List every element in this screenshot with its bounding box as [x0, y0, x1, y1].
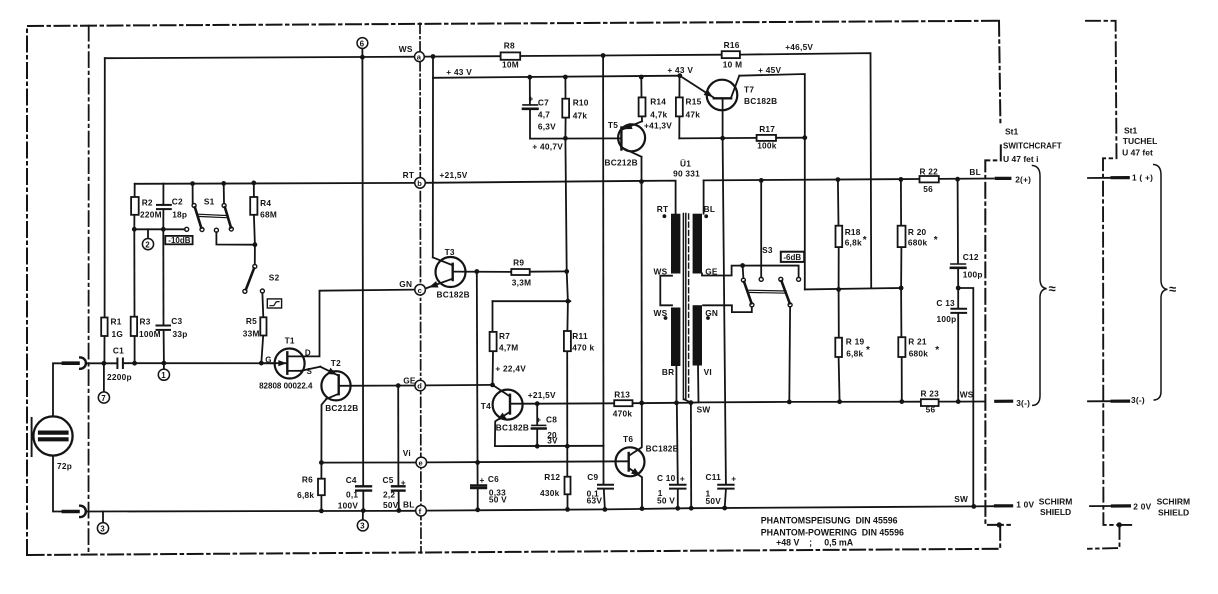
svg-text:*: * — [863, 235, 867, 246]
node 7 tick — [103, 366, 105, 392]
svg-text:R14: R14 — [650, 97, 666, 107]
capsule circle — [33, 416, 72, 455]
node (3) circle center — [357, 520, 368, 531]
resistor R1 — [101, 318, 107, 337]
svg-text:3(-): 3(-) — [1016, 398, 1030, 408]
svg-text:SCHIRM: SCHIRM — [1039, 497, 1073, 507]
svg-text:WS: WS — [960, 390, 974, 400]
svg-text:RT: RT — [657, 204, 669, 214]
wire R1 vertical from WS line corner — [104, 58, 106, 317]
node f circle (BL) — [416, 505, 427, 516]
transformer BL polarity dot — [704, 214, 708, 218]
wire R4 leads + S1 pole link down to S2 — [253, 183, 255, 197]
svg-text:R15: R15 — [686, 97, 702, 107]
resistor R8 — [501, 52, 521, 59]
Tuchel pin 3(-) stub — [1088, 400, 1112, 402]
wire C12/C13 junction to shield — [958, 288, 973, 505]
wire C8 vertical — [536, 404, 538, 425]
svg-text:C7: C7 — [538, 97, 549, 107]
svg-text:1: 1 — [161, 371, 166, 380]
resistor R2 — [131, 197, 139, 215]
wire T6 emitter — [629, 468, 642, 508]
T7 base lead down — [722, 98, 724, 138]
svg-text:SHIELD: SHIELD — [1158, 508, 1189, 518]
node a circle (WS) — [415, 52, 425, 62]
svg-text:+: + — [731, 474, 736, 484]
wire R15 leads — [678, 76, 680, 98]
wire R20/R21 column — [900, 179, 902, 225]
svg-text:e: e — [419, 459, 423, 468]
wire R3 bottom lead — [134, 336, 136, 363]
pin 2(+) bar — [996, 177, 1010, 180]
svg-text:R16: R16 — [724, 40, 740, 50]
svg-text:+48 V ; 0,5 mA: +48 V ; 0,5 mA — [776, 537, 854, 547]
svg-text:R13: R13 — [614, 389, 630, 399]
svg-text:C4: C4 — [346, 475, 357, 485]
svg-text:+46,5V: +46,5V — [785, 42, 813, 52]
wire R5 bottom to gate node — [261, 336, 263, 364]
svg-text:+: + — [480, 475, 485, 485]
svg-text:T4: T4 — [481, 401, 491, 411]
S2 lever — [246, 268, 254, 289]
svg-text:C 13: C 13 — [936, 298, 955, 308]
resistor R10 — [562, 99, 569, 118]
svg-text:1 0V: 1 0V — [1016, 500, 1034, 510]
capacitor C11 plates — [718, 484, 733, 486]
svg-text:50 V: 50 V — [657, 496, 675, 506]
node b circle (RT) — [415, 178, 426, 189]
resistor R22 — [920, 176, 939, 182]
svg-text:C5: C5 — [383, 475, 394, 485]
svg-text:3: 3 — [100, 525, 105, 534]
svg-text:R8: R8 — [504, 40, 515, 50]
svg-text:+21,5V: +21,5V — [440, 170, 468, 180]
svg-text:T2: T2 — [331, 358, 341, 368]
wire C11 column from T7 base node — [723, 138, 726, 484]
resistor R12 — [565, 477, 571, 495]
S3 lever2 output column to rail — [788, 307, 791, 402]
S1 lever right — [225, 207, 231, 227]
wire -10dB link — [134, 228, 184, 230]
transformer shield double line — [682, 214, 684, 400]
svg-text:VI: VI — [704, 367, 712, 377]
svg-text:6,8k: 6,8k — [846, 349, 863, 359]
svg-text:+: + — [680, 474, 685, 484]
resistor R3 — [131, 317, 137, 336]
svg-text:6,8k: 6,8k — [297, 490, 314, 500]
wire BL output line (transformer BL to pin 2+) — [704, 179, 920, 180]
wire +45V from T7 collector — [739, 74, 805, 289]
svg-text:6: 6 — [360, 39, 365, 48]
svg-text:7: 7 — [101, 394, 106, 403]
svg-text:470k: 470k — [613, 409, 633, 419]
svg-text:Ü1: Ü1 — [680, 159, 691, 169]
T5 emitter diagonal with arrow (PNP) — [621, 121, 642, 130]
svg-text:+: + — [401, 478, 406, 488]
transformer BL lead — [703, 180, 705, 213]
T3 collector diagonal — [433, 257, 453, 265]
wire T6 collector — [629, 403, 642, 456]
resistor R9 — [511, 269, 529, 275]
svg-text:R 21: R 21 — [908, 337, 927, 347]
node 2 tick — [147, 229, 149, 238]
transformer core dashed line — [688, 214, 690, 397]
svg-text:GN: GN — [399, 279, 412, 289]
wire WS top line from inner corner to node a to +46.5V corner — [105, 57, 420, 59]
svg-text:470 k: 470 k — [572, 342, 594, 352]
wire R11 top lead — [566, 301, 569, 331]
svg-text:b: b — [417, 179, 422, 188]
svg-text:6,8k: 6,8k — [845, 237, 862, 247]
svg-text:R11: R11 — [572, 331, 588, 341]
svg-text:+: + — [536, 415, 541, 425]
svg-text:100M: 100M — [139, 329, 161, 339]
svg-text:D: D — [305, 348, 311, 357]
pin 1 0V bar — [996, 504, 1012, 507]
svg-text:BC182B: BC182B — [744, 96, 777, 106]
svg-text:82808 00022.4: 82808 00022.4 — [259, 381, 313, 390]
transformer BR lead — [675, 366, 677, 403]
svg-text:SWITCHCRAFT: SWITCHCRAFT — [1003, 142, 1062, 151]
wire RT line node b to transformer RT lead — [425, 181, 675, 214]
wire C12/C13 column — [957, 179, 959, 263]
svg-text:4,7: 4,7 — [538, 110, 550, 120]
wire node6 column down to C4 — [361, 57, 364, 485]
wire GE line T2 base to node d to T4 collector junction — [339, 385, 415, 387]
node 3 tick (left) — [102, 511, 104, 522]
transistor T4 circle — [493, 390, 523, 420]
T3 base lead — [453, 271, 512, 273]
svg-text:U 47 fet: U 47 fet — [1122, 147, 1153, 157]
svg-text:+ 43 V: + 43 V — [667, 65, 693, 75]
svg-text:47k: 47k — [686, 110, 701, 120]
outer microphone body frame (dash-dot) — [27, 21, 1013, 555]
svg-text:≈: ≈ — [1049, 281, 1056, 296]
svg-text:C6: C6 — [488, 474, 499, 484]
Tuchel pin 2 0V stub — [1090, 505, 1113, 507]
svg-text:BC182B: BC182B — [646, 444, 679, 454]
svg-text:72p: 72p — [57, 461, 72, 471]
svg-text:100V: 100V — [338, 501, 359, 511]
wire C5 column from GE junction — [397, 386, 399, 486]
capacitor C10 plates — [670, 484, 686, 486]
wire T4 base to C8 top — [510, 403, 537, 405]
T2 emitter diagonal with arrow (PNP) — [320, 367, 338, 376]
svg-text:C9: C9 — [587, 472, 598, 482]
svg-text:S2: S2 — [269, 273, 280, 283]
svg-text:68M: 68M — [260, 209, 277, 219]
T1 source lead — [288, 370, 301, 372]
capacitor C3 plates — [157, 325, 171, 327]
svg-text:R10: R10 — [573, 97, 589, 107]
resistor R11 — [564, 331, 571, 351]
resistor R21 — [898, 337, 905, 357]
wire input line (capsule to T1 gate) — [87, 362, 117, 364]
transistor T7 circle — [707, 80, 738, 111]
svg-text:6,3V: 6,3V — [538, 122, 556, 132]
resistor R17 — [757, 135, 776, 141]
S3 lever 1 — [744, 282, 751, 303]
resistor R13 — [614, 400, 632, 406]
svg-text:63V: 63V — [587, 496, 603, 506]
svg-text:2(+): 2(+) — [1015, 174, 1031, 184]
svg-text:*: * — [935, 345, 939, 356]
svg-text:56: 56 — [923, 184, 933, 194]
wire Vi line node e row — [321, 462, 416, 464]
resistor R14 — [639, 97, 646, 116]
svg-text:S1: S1 — [204, 197, 215, 207]
svg-text:R2: R2 — [142, 198, 153, 208]
capsule plates — [40, 431, 67, 435]
capacitor C8 plates — [532, 424, 546, 426]
resistor R19 — [835, 338, 842, 357]
svg-text:C11: C11 — [706, 472, 722, 482]
svg-text:C 10: C 10 — [657, 473, 676, 483]
capacitor C2 plates — [157, 204, 171, 206]
S1 lever end circles — [200, 228, 204, 232]
svg-text:2: 2 — [145, 240, 150, 249]
wire GN line from node c to T1 drain — [303, 290, 415, 357]
svg-text:SCHIRM: SCHIRM — [1157, 497, 1191, 507]
resistor R7 — [490, 332, 497, 351]
svg-text:C12: C12 — [963, 252, 979, 262]
capacitor C6 plates — [471, 484, 486, 486]
svg-text:4,7M: 4,7M — [499, 342, 518, 352]
S1 lever left — [195, 207, 201, 227]
svg-text:Vi: Vi — [403, 448, 411, 458]
capacitor C5 plates — [392, 485, 405, 487]
node (2) circle — [142, 239, 153, 250]
wire T1 source to T2 emitter — [301, 367, 320, 371]
wire R14 lead top/bottom — [640, 77, 642, 97]
wire S1 pivot leads — [192, 184, 194, 204]
T5 collector diagonal — [621, 147, 641, 157]
resistor R20 — [898, 226, 906, 247]
svg-text:*: * — [934, 235, 938, 246]
node (3) circle left — [97, 523, 108, 534]
T3 base bar — [452, 264, 454, 280]
svg-text:1G: 1G — [112, 329, 124, 339]
svg-text:R7: R7 — [499, 331, 510, 341]
svg-text:3V: 3V — [547, 435, 558, 445]
svg-text:U 47 fet i: U 47 fet i — [1003, 154, 1038, 164]
S3 contact link from GE wire — [742, 266, 745, 279]
resistor R16 — [722, 51, 740, 58]
svg-text:2,2: 2,2 — [383, 490, 395, 500]
wire R2 bottom to -10dB node — [133, 215, 135, 230]
node d circle (GE) — [415, 380, 426, 391]
T4 base bar — [509, 395, 511, 414]
capsule upper wire — [53, 363, 64, 416]
svg-text:47k: 47k — [573, 110, 588, 120]
svg-text:4,7k: 4,7k — [650, 110, 667, 120]
svg-text:SW: SW — [697, 405, 711, 415]
svg-text:1 ( +): 1 ( +) — [1132, 173, 1153, 183]
T7 emitter diagonal with arrow — [680, 76, 714, 98]
svg-text:T1: T1 — [285, 336, 295, 346]
S3 lever 2 end circle — [788, 303, 792, 307]
svg-text:BC182B: BC182B — [496, 423, 529, 433]
transformer GN2 polarity dot — [706, 316, 710, 320]
T1 gate lead with arrow — [261, 362, 285, 364]
svg-text:-10dB: -10dB — [168, 236, 190, 245]
svg-text:R1: R1 — [111, 317, 122, 327]
node (6) circle — [357, 38, 368, 49]
svg-text:100p: 100p — [963, 270, 983, 280]
T7 base bar (horizontal) — [714, 97, 731, 99]
capacitor C13 plates — [951, 308, 966, 310]
wire C7 lead and bottom wire — [529, 77, 531, 104]
transformer Ü1: RT lead dot — [663, 214, 667, 218]
svg-text:S3: S3 — [762, 245, 773, 255]
wire RT line node b left section — [135, 182, 420, 185]
T1 channel bar — [286, 352, 288, 373]
svg-text:SW: SW — [954, 494, 968, 504]
wire C2 column — [162, 184, 164, 205]
T2 collector diagonal — [326, 394, 338, 399]
svg-text:220M: 220M — [140, 209, 162, 219]
svg-text:BC212B: BC212B — [325, 403, 358, 413]
node (7) circle — [98, 392, 109, 403]
wire C4 bottom handled; C6 column — [476, 272, 479, 485]
capacitor C9 plates — [598, 484, 613, 486]
transistor T2 circle — [321, 371, 350, 400]
transformer SW shield lead to BL rail — [690, 403, 692, 509]
wire C3 column — [162, 229, 164, 325]
resistor R15 — [676, 97, 683, 116]
node 6 tick — [361, 48, 363, 57]
wire +43V rail — [433, 76, 680, 78]
svg-text:T5: T5 — [608, 120, 618, 130]
switch S1 pivot circles — [192, 204, 196, 208]
pin 3(-) bar — [996, 400, 1012, 403]
transformer WS2 polarity dot — [664, 316, 668, 320]
resistor R18 — [836, 226, 843, 247]
node e circle (Vi) — [416, 457, 427, 468]
svg-text:R 23: R 23 — [921, 388, 940, 398]
transistor T3 circle — [436, 257, 466, 287]
resistor R4 — [250, 197, 257, 215]
svg-text:R3: R3 — [140, 317, 151, 327]
svg-text:56: 56 — [926, 405, 936, 415]
wire +21.5V lower rail (C8 top to R13 to output 3-) — [537, 402, 614, 404]
svg-text:3(-): 3(-) — [1131, 395, 1145, 405]
amplifier module boundary with terminals a-f (dash-dot) — [420, 23, 421, 553]
svg-text:10M: 10M — [502, 60, 519, 70]
svg-text:100p: 100p — [937, 314, 957, 324]
svg-text:WS: WS — [654, 266, 668, 276]
svg-text:G: G — [265, 356, 271, 365]
svg-text:18p: 18p — [172, 209, 187, 219]
svg-text:R17: R17 — [759, 124, 775, 134]
T6 base bar — [628, 453, 630, 471]
-6dB box — [781, 252, 804, 262]
S3 lever 2 — [782, 281, 790, 303]
svg-text:+ 43 V: + 43 V — [446, 67, 472, 77]
transformer GE lead to S3 — [702, 266, 799, 278]
capacitor C1 plates — [116, 359, 118, 369]
wire T4 emitter row y=446 — [495, 445, 604, 447]
svg-text:RT: RT — [403, 170, 415, 180]
capsule section divider (dash-dot) — [88, 26, 90, 555]
capsule diaphragm line — [31, 418, 33, 456]
resistor R6 — [318, 479, 325, 496]
wire T2 collector / R6 column — [321, 399, 326, 479]
T3 emitter diagonal with arrow to node c — [426, 279, 452, 289]
svg-text:3: 3 — [360, 522, 365, 531]
svg-text:33M: 33M — [243, 329, 260, 339]
wire WS feedback column x=603 — [602, 56, 604, 485]
wire R7 leads — [492, 301, 494, 332]
svg-text:R 22: R 22 — [920, 166, 939, 176]
svg-text:St1: St1 — [1124, 126, 1138, 136]
svg-text:PHANTOMSPEISUNG DIN 45596: PHANTOMSPEISUNG DIN 45596 — [761, 516, 898, 526]
wire +43V feed stub at x=433 — [432, 57, 434, 78]
wire R17 line — [679, 137, 756, 140]
svg-text:R18: R18 — [845, 227, 861, 237]
transformer winding bar WS-BR — [671, 308, 680, 367]
svg-text:+ 40,7V: + 40,7V — [532, 142, 563, 152]
wire phantom feed horizontal to R18/R20 bottoms — [805, 288, 901, 289]
T2 base bar — [338, 375, 340, 394]
svg-text:90 331: 90 331 — [673, 169, 700, 179]
svg-text:WS: WS — [399, 44, 413, 54]
capsule lower wire — [53, 456, 64, 512]
svg-text:C8: C8 — [546, 415, 557, 425]
lower connector plug — [63, 510, 78, 514]
node (1) circle — [158, 369, 169, 380]
wire R3 top lead from -10dB node — [133, 229, 135, 316]
transformer winding bar RT-WS — [671, 214, 680, 274]
wire R9 row and R7/R11 top link — [530, 270, 567, 272]
wire right phantom network: R18/R19 column — [837, 180, 840, 226]
preattenuation curve box — [267, 299, 281, 308]
wire C10 column below BR junction — [677, 403, 678, 485]
svg-text:50V: 50V — [706, 496, 722, 506]
-10dB box — [165, 236, 192, 244]
svg-text:c: c — [418, 286, 422, 295]
wire BL bottom rail — [87, 510, 415, 513]
svg-text:R 19: R 19 — [846, 337, 865, 347]
svg-text:BL: BL — [969, 167, 981, 177]
T7 collector diagonal — [731, 76, 739, 98]
svg-text:GN: GN — [705, 308, 718, 318]
transistor T5 circle — [618, 124, 645, 151]
svg-text:+41,3V: +41,3V — [644, 121, 672, 131]
svg-text:3,3M: 3,3M — [512, 278, 531, 288]
svg-text:T3: T3 — [445, 247, 455, 257]
wire R2 top lead — [134, 184, 136, 197]
svg-text:St1: St1 — [1005, 127, 1019, 137]
transformer winding bar BL-GE — [693, 214, 702, 274]
svg-text:+: + — [529, 94, 534, 104]
svg-text:R9: R9 — [513, 257, 524, 267]
svg-text:2200p: 2200p — [107, 372, 132, 382]
wire R5 to S2 contact — [261, 293, 264, 317]
svg-text:R 20: R 20 — [908, 227, 927, 237]
wire R10-R9-R11-R12 column x=567 — [565, 138, 566, 271]
svg-text:*: * — [866, 345, 870, 356]
node 3 center tick — [362, 511, 364, 520]
T1 drain lead — [288, 355, 303, 357]
svg-text:+ 22,4V: + 22,4V — [495, 364, 526, 374]
svg-text:TUCHEL: TUCHEL — [1123, 136, 1157, 146]
-10dB contact circle — [185, 227, 189, 231]
T4 collector diagonal — [493, 385, 511, 397]
S3 coupling bar (double line) — [748, 289, 786, 292]
svg-text:BC212B: BC212B — [605, 158, 638, 168]
svg-text:BC182B: BC182B — [437, 290, 470, 300]
